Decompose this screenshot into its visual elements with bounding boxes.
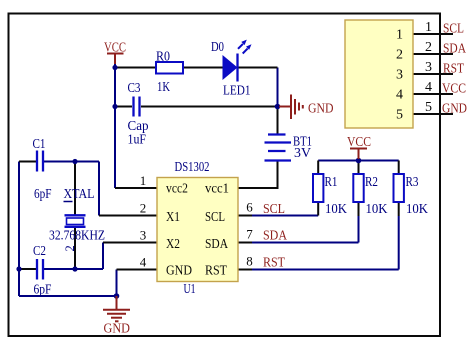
svg-text:RST: RST: [443, 62, 464, 77]
svg-text:4: 4: [425, 80, 432, 95]
svg-text:2: 2: [140, 201, 147, 216]
svg-text:1: 1: [396, 28, 403, 43]
svg-text:GND: GND: [308, 102, 334, 117]
svg-text:R3: R3: [406, 175, 419, 190]
svg-text:RST: RST: [263, 256, 285, 271]
svg-text:SCL: SCL: [263, 202, 285, 217]
svg-text:1uF: 1uF: [128, 133, 147, 148]
svg-text:GND: GND: [166, 264, 192, 279]
svg-text:VCC: VCC: [442, 82, 466, 97]
svg-text:6pF: 6pF: [34, 187, 52, 202]
svg-text:C1: C1: [33, 137, 46, 152]
svg-text:X2: X2: [166, 237, 180, 252]
svg-text:R2: R2: [365, 175, 378, 190]
svg-text:C3: C3: [128, 81, 141, 96]
svg-text:SDA: SDA: [443, 42, 467, 57]
svg-text:SCL: SCL: [205, 210, 225, 225]
svg-text:GND: GND: [442, 102, 467, 117]
svg-text:6: 6: [246, 200, 253, 215]
svg-text:5: 5: [396, 108, 403, 123]
svg-text:3: 3: [396, 68, 403, 83]
svg-text:LED1: LED1: [223, 84, 251, 99]
svg-text:SDA: SDA: [205, 237, 229, 252]
svg-text:VCC: VCC: [104, 41, 126, 56]
svg-text:4: 4: [140, 255, 147, 270]
svg-text:3V: 3V: [294, 146, 311, 161]
svg-text:2: 2: [63, 245, 77, 251]
svg-text:RST: RST: [205, 264, 227, 279]
svg-text:R1: R1: [325, 175, 338, 190]
svg-text:DS1302: DS1302: [175, 160, 210, 175]
svg-text:10K: 10K: [325, 202, 347, 217]
svg-text:U1: U1: [184, 282, 196, 297]
svg-text:vcc1: vcc1: [205, 182, 229, 197]
svg-text:2: 2: [425, 40, 432, 55]
svg-text:5: 5: [425, 100, 432, 115]
svg-text:7: 7: [246, 227, 253, 242]
svg-text:8: 8: [246, 254, 253, 269]
svg-text:10K: 10K: [406, 202, 428, 217]
svg-text:32.768KHZ: 32.768KHZ: [49, 229, 105, 244]
svg-text:10K: 10K: [366, 202, 388, 217]
svg-text:R0: R0: [156, 50, 170, 65]
svg-text:XTAL: XTAL: [64, 187, 95, 202]
svg-text:D0: D0: [211, 40, 224, 55]
svg-text:SDA: SDA: [263, 229, 288, 244]
svg-text:X1: X1: [166, 210, 180, 225]
svg-text:1K: 1K: [157, 80, 170, 95]
svg-text:3: 3: [140, 228, 147, 243]
svg-text:2: 2: [396, 48, 403, 63]
svg-text:VCC: VCC: [347, 135, 371, 150]
svg-text:3: 3: [425, 60, 432, 75]
svg-text:SCL: SCL: [443, 22, 464, 37]
svg-text:1: 1: [425, 20, 432, 35]
svg-text:1: 1: [140, 173, 147, 188]
svg-text:GND: GND: [104, 322, 131, 337]
svg-text:C2: C2: [33, 244, 46, 259]
svg-text:4: 4: [396, 88, 403, 103]
svg-text:vcc2: vcc2: [166, 182, 188, 197]
svg-text:6pF: 6pF: [34, 283, 52, 298]
